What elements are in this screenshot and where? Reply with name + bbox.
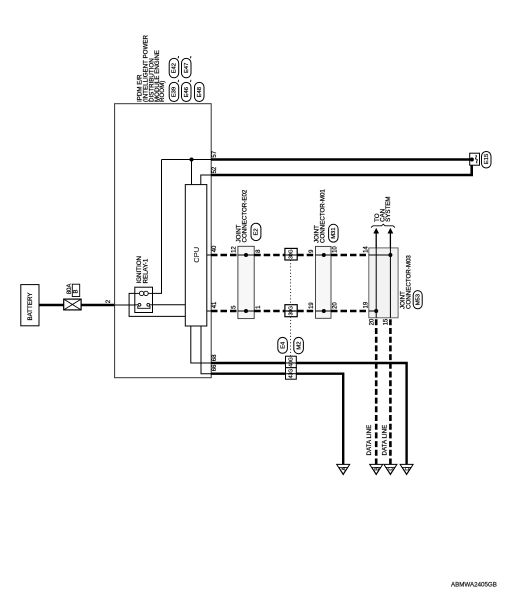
- svg-text:20: 20: [332, 302, 338, 309]
- connector E15: [470, 152, 491, 169]
- wire relay contact to CPU: [153, 304, 186, 306]
- inline connector 30G top: [285, 248, 297, 260]
- CAN wire M03 to ground C: [389, 318, 392, 465]
- wire 57 internal: [162, 159, 212, 161]
- connector oval E48: [195, 82, 205, 101]
- CAN wire 41 to E02: [211, 310, 238, 313]
- svg-text:E42: E42: [172, 63, 178, 73]
- svg-text:M2: M2: [296, 342, 302, 350]
- connector oval E39: [169, 80, 179, 102]
- svg-text:D: D: [405, 467, 411, 471]
- wire CPU 41 internal: [207, 310, 211, 312]
- wire 66 to ground A: [211, 374, 343, 465]
- arrow to CAN system left: [373, 228, 379, 248]
- connector oval E46: [182, 80, 192, 102]
- fuse 80A B: [64, 284, 81, 310]
- svg-text:ROOM): ROOM): [159, 81, 166, 102]
- E02 label: [235, 189, 261, 242]
- wire relay coil left to CPU: [129, 293, 185, 316]
- inline connector 30G bottom: [285, 305, 297, 317]
- svg-text:SYSTEM: SYSTEM: [385, 196, 392, 221]
- wire CPU 68 down: [191, 326, 211, 363]
- svg-text:52: 52: [212, 166, 218, 173]
- joint connector E02: [238, 246, 254, 318]
- svg-text:15: 15: [384, 318, 390, 325]
- wire battery to fuse: [39, 304, 64, 307]
- ground C: [384, 464, 397, 474]
- ignition relay-1: [135, 287, 153, 312]
- TO CAN SYSTEM label: [374, 196, 392, 221]
- svg-text:41: 41: [212, 301, 218, 308]
- CAN wire M01 to M03 top: [331, 254, 369, 257]
- svg-text:10: 10: [332, 246, 338, 253]
- svg-text:12: 12: [231, 246, 237, 253]
- wire CPU 66 down: [201, 326, 211, 374]
- svg-text:A: A: [342, 467, 348, 471]
- wire CPU 40 internal: [207, 254, 211, 256]
- svg-text:E2: E2: [254, 228, 260, 235]
- M03 label: [399, 255, 422, 309]
- svg-text:43G: 43G: [288, 369, 294, 379]
- harness boundary dotted line: [290, 260, 292, 305]
- brace over arrows: [371, 224, 395, 227]
- svg-text:BATTERY: BATTERY: [27, 293, 34, 321]
- svg-text:E39: E39: [172, 87, 178, 97]
- ground D: [400, 464, 413, 474]
- connector oval M2: [294, 337, 304, 353]
- wire 57 to E15: [211, 158, 470, 161]
- svg-text:ABMWA2405GB: ABMWA2405GB: [451, 582, 497, 589]
- CAN wire M01 to M03 bottom: [331, 310, 369, 313]
- wire relay coil right up to 57 line: [153, 160, 162, 294]
- svg-text:57: 57: [212, 150, 218, 157]
- ground A: [337, 464, 350, 474]
- wire IPDM edge to relay contact: [115, 304, 135, 306]
- CAN wire E02 to 30G top: [254, 254, 285, 257]
- connector oval E4: [278, 337, 288, 353]
- CAN wire M03 to ground B: [375, 318, 378, 465]
- svg-text:DATA LINE: DATA LINE: [366, 425, 373, 456]
- svg-text:DATA LINE: DATA LINE: [382, 425, 389, 456]
- svg-text:CPU: CPU: [192, 247, 201, 263]
- wire 52 internal: [201, 175, 211, 184]
- connector oval E42: [169, 56, 179, 78]
- CAN wire E02 to 30G bottom: [254, 310, 285, 313]
- arrow to CAN system right: [388, 228, 394, 248]
- svg-text:66: 66: [212, 364, 218, 371]
- connector oval E47: [182, 56, 192, 78]
- svg-text:E4: E4: [280, 341, 286, 349]
- CAN wire 30G to M01 bottom: [297, 310, 315, 313]
- wire 68 to ground D: [211, 363, 407, 465]
- svg-text:30G: 30G: [288, 249, 294, 259]
- svg-text:E48: E48: [197, 87, 203, 97]
- wire fuse to IPDM pin 2: [81, 304, 115, 307]
- svg-text:B: B: [74, 289, 80, 293]
- svg-text:30G: 30G: [288, 306, 294, 316]
- svg-text:E47: E47: [184, 63, 190, 73]
- IPDM E/R box: [115, 104, 212, 378]
- svg-text:E15: E15: [484, 154, 490, 164]
- CAN wire 40 to E02: [211, 254, 238, 257]
- wire junction down to CPU: [191, 160, 193, 185]
- svg-text:C: C: [389, 467, 395, 471]
- svg-text:RELAY-1: RELAY-1: [143, 258, 150, 283]
- svg-text:20: 20: [369, 318, 375, 325]
- wire 52 to E15: [211, 160, 472, 176]
- svg-text:40G: 40G: [288, 357, 294, 367]
- svg-text:19: 19: [309, 302, 315, 309]
- M01 label: [313, 189, 338, 243]
- svg-text:CONNECTOR-E02: CONNECTOR-E02: [242, 189, 249, 242]
- svg-text:CONNECTOR-M01: CONNECTOR-M01: [319, 189, 326, 243]
- svg-text:40: 40: [212, 245, 218, 252]
- inline connector E4/M2 40G/43G: [286, 356, 297, 379]
- svg-text:68: 68: [212, 354, 218, 361]
- joint connector M01: [316, 246, 332, 318]
- ignition relay label: [136, 256, 150, 284]
- svg-text:CONNECTOR-M03: CONNECTOR-M03: [406, 255, 413, 309]
- svg-text:B: B: [375, 467, 381, 471]
- IPDM E/R label: [137, 35, 167, 102]
- battery B1: [21, 285, 39, 326]
- CAN wire 30G to M01 top: [297, 254, 315, 257]
- ground B: [370, 464, 383, 474]
- joint connector M03: [369, 248, 398, 318]
- svg-text:E46: E46: [184, 87, 190, 97]
- svg-text:M53: M53: [415, 294, 421, 305]
- CPU U1: [185, 185, 207, 326]
- svg-text:M31: M31: [331, 228, 337, 239]
- junction: [190, 158, 194, 162]
